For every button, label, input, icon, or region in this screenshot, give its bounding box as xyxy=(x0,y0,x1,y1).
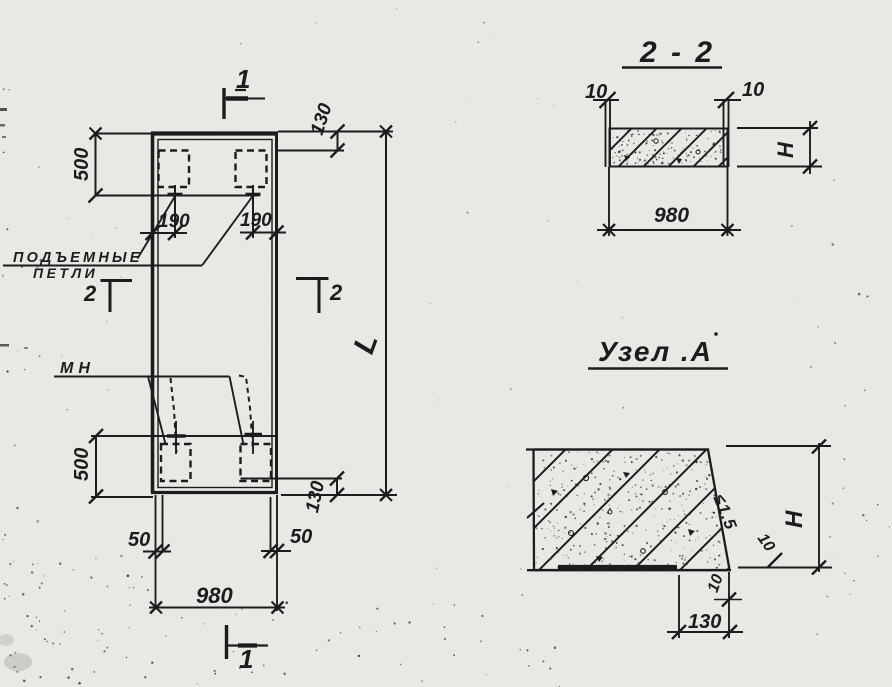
section marker 1 bottom xyxy=(227,625,269,674)
svg-text:ПЕТЛИ: ПЕТЛИ xyxy=(33,265,98,281)
svg-text:1: 1 xyxy=(239,644,253,674)
label MH xyxy=(54,360,230,377)
svg-text:980: 980 xyxy=(196,583,233,608)
svg-text:Узел .А: Узел .А xyxy=(598,336,713,367)
section marker 2 left xyxy=(83,280,132,312)
label lifting loops xyxy=(3,250,202,281)
dimension 130 bottom right xyxy=(241,472,345,515)
panel inner outline xyxy=(158,140,272,488)
svg-text:50: 50 xyxy=(290,526,312,548)
dimension H section xyxy=(737,121,822,174)
lifting loop square top-right xyxy=(236,151,267,188)
svg-text:H: H xyxy=(773,141,798,158)
dimension 500 top xyxy=(71,128,152,203)
svg-text:10: 10 xyxy=(585,81,607,103)
dimension 50 right xyxy=(261,495,312,611)
dimension 190 left xyxy=(140,211,190,240)
slab body with hatch xyxy=(592,128,757,168)
title Uzel A xyxy=(588,332,728,368)
lifting loop square top-left xyxy=(159,151,190,188)
bottom-left loop anchor xyxy=(167,421,186,454)
svg-text:2: 2 xyxy=(329,280,343,305)
break slash on left edge xyxy=(527,503,544,518)
section marker 1 top xyxy=(224,64,265,119)
extension through top lifting loops xyxy=(95,195,258,197)
slab left wall xyxy=(606,100,611,167)
MH hidden line left xyxy=(171,378,177,452)
dimension 190 right xyxy=(240,210,286,240)
dimension 50 left xyxy=(128,495,171,609)
dimension 500 bottom xyxy=(71,429,153,504)
dimension 980 bottom xyxy=(149,583,285,614)
svg-text:500: 500 xyxy=(71,148,93,181)
svg-text:ПОДЪЕМНЫЕ: ПОДЪЕМНЫЕ xyxy=(13,250,143,266)
leader to right loop xyxy=(202,195,254,266)
svg-text:10: 10 xyxy=(742,79,764,101)
extension through bottom loops xyxy=(91,435,275,437)
dimension 10 left xyxy=(585,81,619,108)
dimension 10 right xyxy=(714,79,764,108)
svg-text:H: H xyxy=(781,510,808,528)
slope label 1:5 xyxy=(709,491,740,532)
lifting loop square bottom-left xyxy=(161,444,191,481)
title 2-2 xyxy=(622,36,722,69)
svg-text:980: 980 xyxy=(654,204,689,227)
dimension 130 node xyxy=(667,575,743,639)
dimension 10 bottom xyxy=(705,572,742,638)
MH leader left xyxy=(148,377,166,445)
top-right loop anchor xyxy=(246,185,261,238)
svg-text:2 - 2: 2 - 2 xyxy=(639,36,715,69)
MH hidden line right xyxy=(239,376,253,451)
slab right wall xyxy=(724,100,729,167)
svg-text:МН: МН xyxy=(60,360,95,377)
svg-text:130: 130 xyxy=(688,611,721,633)
svg-text:50: 50 xyxy=(128,529,150,551)
dimension 130 top right xyxy=(278,101,345,158)
leader to left loop xyxy=(138,196,176,259)
section marker 2 right xyxy=(296,278,343,313)
svg-text:2: 2 xyxy=(83,281,97,306)
bearing plate xyxy=(558,565,677,569)
svg-text:190: 190 xyxy=(240,210,272,231)
top-left loop anchor xyxy=(168,185,183,238)
dimension H node xyxy=(726,440,832,575)
dimension 10 at slope toe xyxy=(754,531,782,567)
dimension 980 section xyxy=(597,167,741,236)
node A concrete body xyxy=(443,449,848,572)
panel outer outline xyxy=(151,134,278,494)
svg-text:190: 190 xyxy=(158,211,190,232)
lifting loop square bottom-right xyxy=(241,444,272,481)
MH leader right xyxy=(230,377,244,445)
bottom-right loop anchor xyxy=(245,421,263,454)
svg-text:500: 500 xyxy=(71,448,93,481)
dimension L right side xyxy=(278,126,397,502)
